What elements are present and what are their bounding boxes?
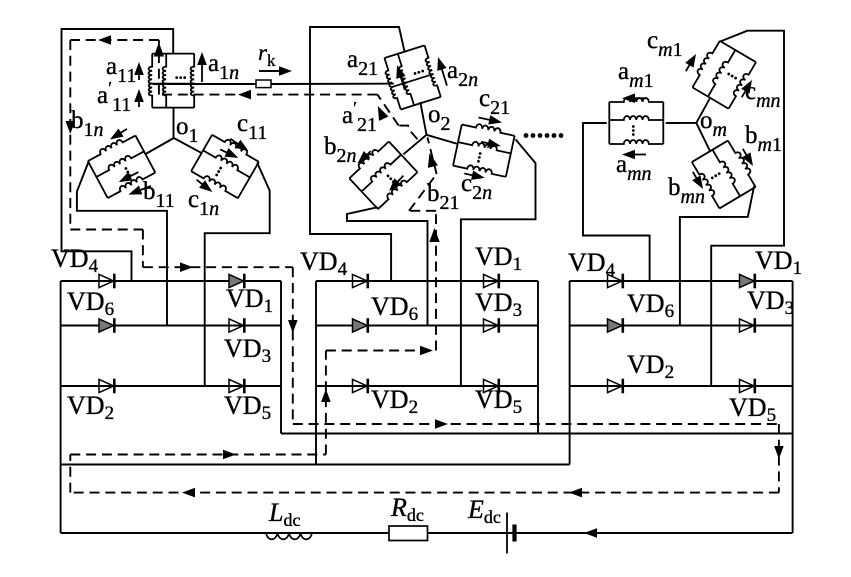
diode VD5 bridge3: [740, 379, 755, 392]
winding box b11..b1n group1: [86, 132, 155, 198]
arrow winding c21: [479, 115, 503, 127]
wire VD group 3 row1: [570, 280, 793, 282]
arrow winding a11: [134, 62, 144, 80]
dashed path left side down: [69, 40, 71, 230]
dashed path a'21 diagonal: [377, 95, 398, 126]
dashed path bottom return run: [70, 492, 779, 494]
wire c2 output to bridge row3: [461, 139, 536, 386]
wire o2 to b2 box: [403, 135, 426, 155]
diode VD2 bridge2: [353, 379, 368, 392]
wire DC negative collector bus: [61, 464, 570, 466]
dashed arrow b21 to o2: [424, 152, 437, 168]
dashed path down to VD1 row: [142, 230, 144, 268]
arrow winding c2n: [464, 171, 485, 183]
dashed arrow rightward to bridge2: [223, 450, 236, 460]
wire om to bm box: [696, 123, 710, 151]
wire o2 to a2 box: [420, 102, 426, 135]
diode VD3 bridge3: [740, 319, 755, 332]
dashed path rightward above plus bus: [293, 423, 779, 425]
arrow winding a21: [392, 64, 405, 90]
wire bridge1 anode bus: [60, 281, 62, 533]
wire VD group 2 row2: [316, 325, 538, 327]
wire bridge3 cathode bus: [792, 281, 794, 533]
diode VD6 bridge2: [353, 319, 368, 332]
dashed arrow left on top run: [98, 35, 111, 45]
dashed arrow toward b2 junction: [420, 346, 433, 356]
dashed path a'11 exit up through a1 box: [158, 40, 160, 95]
wire VD group 1 row1: [61, 280, 281, 282]
diode VD6 bridge1: [99, 319, 114, 332]
dashed path toward VD1: [143, 266, 293, 268]
dashed path jog right: [70, 229, 143, 231]
arrow winding c2 mid: [481, 139, 502, 151]
dashed path top-left run: [70, 39, 159, 41]
wire a1 top rail to left frame: [62, 29, 174, 281]
arrow winding a2n: [433, 56, 447, 86]
arrow winding b2 mid: [386, 176, 404, 195]
wire cm outer rail to right frame to bridge row3: [711, 31, 784, 386]
winding box c21..c2n group2: [453, 121, 515, 177]
diode VD1 bridge1: [229, 274, 244, 287]
dashed arrow up into bridge2: [321, 389, 331, 402]
wire o2 to c2 box: [427, 135, 458, 144]
wire bridge2 anode bus: [315, 281, 317, 465]
ellipsis more groups: [524, 133, 529, 138]
dashed arrow a'11 exit up: [154, 43, 164, 57]
arrow winding a1n: [197, 52, 207, 82]
wire b2 output to bridge row2: [347, 207, 428, 325]
wire o1 to c1 box: [174, 138, 202, 153]
wire o1 to b1 box: [146, 138, 174, 154]
diode VD5 bridge2: [484, 379, 499, 392]
wire om to am box: [666, 122, 697, 124]
dashed arrow down at far right: [774, 446, 784, 459]
diode VD3 bridge2: [484, 319, 499, 332]
dashed arrow rightward above plus bus: [435, 419, 448, 429]
arrow winding a'11: [134, 89, 144, 107]
arrow rk current direction: [259, 66, 292, 76]
diode VD3 bridge1: [229, 319, 244, 332]
resistor Rdc: [389, 526, 428, 541]
winding box b21..b2n group2: [347, 139, 418, 209]
dashed path down right of bridge1: [292, 267, 294, 424]
dashed path jog at b2: [409, 210, 436, 212]
diode VD2 bridge1: [99, 379, 114, 392]
dashed path down at far right: [778, 424, 780, 493]
winding box bm1..bmn group3: [692, 139, 759, 209]
diode VD5 bridge1: [229, 379, 244, 392]
diode VD4 bridge3: [608, 274, 623, 287]
winding box c11..c1n group1: [191, 131, 261, 198]
wire bridge1 cathode bus: [280, 281, 282, 434]
wire DC bottom loop: [61, 532, 793, 534]
wire DC positive collector bus: [281, 433, 793, 435]
wire am output to bridge row1: [583, 123, 650, 281]
dashed arrow on a'21 return: [238, 90, 251, 100]
arrow winding cm1: [685, 52, 700, 72]
winding box a11..a1n group1: [149, 54, 195, 108]
arrow winding c1 mid: [220, 148, 240, 162]
dashed path toward b2 junction: [326, 350, 436, 352]
arrow winding bmn: [692, 172, 707, 192]
diode VD2 bridge3: [608, 379, 623, 392]
arrow winding b2n: [354, 151, 370, 167]
diode VD4 bridge2: [353, 274, 368, 287]
dashed arrow b21 lower: [429, 228, 439, 242]
dashed path b21 to o2: [428, 138, 437, 175]
dashed path diagonal through b2 area: [409, 174, 437, 211]
wire c1 output to bridge row3: [205, 163, 270, 387]
winding box cm1..cmn group3: [689, 39, 756, 109]
arrow winding c11: [230, 139, 251, 155]
arrow winding amn: [622, 150, 646, 160]
dashed arrow down right of bridge1: [288, 320, 298, 333]
diode VD1 bridge3: [740, 274, 755, 287]
wire o1 to a1 box: [173, 107, 175, 138]
wire VD group 1 row3: [61, 385, 281, 387]
diode VD1 bridge2: [484, 274, 499, 287]
dashed arrow down on left side: [66, 121, 76, 134]
arrow winding cmn: [741, 78, 756, 98]
winding box a21..a2n group2: [381, 45, 441, 110]
dashed arrow bottom return left: [182, 488, 195, 498]
wire bridge2 cathode bus: [537, 281, 539, 434]
wire bm output to bridge row2: [680, 186, 754, 325]
wire VD group 1 row2: [61, 325, 281, 327]
wire rk to a2 mid tap: [271, 83, 394, 85]
wire b1 output to bridge row2: [77, 162, 167, 325]
diode VD6 bridge3: [608, 319, 623, 332]
arrow winding am1: [622, 93, 646, 103]
winding box am1..amn group3: [609, 98, 663, 144]
arrow on DC bottom loop: [584, 528, 597, 538]
dashed path up into bridge2: [325, 351, 327, 455]
wire bridge3 anode bus: [569, 281, 571, 465]
battery Edc long plate: [506, 513, 508, 554]
wire VD group 3 row2: [570, 325, 793, 327]
arrow winding b11: [127, 185, 151, 199]
battery Edc short plate: [512, 525, 516, 542]
dashed path a'21 to a1 box: [159, 94, 378, 96]
diode VD4 bridge1: [99, 274, 114, 287]
dashed arrow toward VD1: [180, 262, 193, 272]
arrow winding b1n: [107, 129, 127, 144]
wire VD group 2 row3: [316, 385, 538, 387]
wire VD group 3 row3: [570, 385, 793, 387]
arrow winding c1n: [197, 180, 216, 196]
dashed arrow a'21 up: [373, 104, 388, 121]
wire VD group 2 row1: [316, 280, 538, 282]
dashed arrow bottom return right: [569, 488, 582, 498]
dashed path rightward to bridge2: [70, 454, 326, 456]
wire a2 top rail to group2 frame: [310, 27, 405, 281]
arrow winding b1 mid: [117, 172, 139, 186]
resistor rk: [256, 80, 271, 88]
dashed path up along b2 feed: [435, 211, 437, 351]
wire om to cm box: [696, 99, 709, 123]
arrow winding bm1: [742, 149, 757, 169]
dashed path up at bottom left: [69, 455, 71, 493]
wire a1 mid tap to rk: [152, 83, 256, 85]
dashed path o2 into a'21: [399, 126, 418, 140]
inductor Ldc: [266, 533, 312, 539]
